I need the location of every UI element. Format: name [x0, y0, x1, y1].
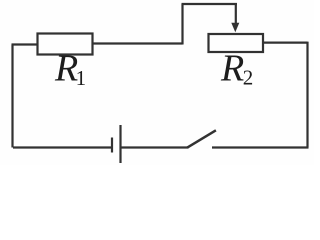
resistor R1 [38, 34, 93, 55]
svg-text:1: 1 [76, 66, 87, 90]
svg-text:2: 2 [243, 66, 254, 90]
wire top rail [182, 3, 237, 5]
switch S lever [187, 130, 216, 147]
battery negative plate [111, 138, 113, 153]
wire battery to switch [122, 146, 189, 148]
svg-text:R: R [54, 48, 78, 90]
wire top-left to R1 [12, 43, 38, 45]
wire bottom right [212, 146, 309, 148]
wire right vertical [306, 42, 308, 148]
wire left vertical [11, 45, 13, 148]
wire bottom left [13, 146, 111, 148]
wire wiper drop [235, 3, 237, 25]
wire riser up [181, 4, 183, 45]
rheostat R2 [209, 34, 264, 52]
svg-text:R: R [220, 48, 244, 90]
wire R1 to riser [93, 42, 183, 44]
wire R2 to right [263, 41, 308, 43]
wiper arrowhead [231, 23, 239, 33]
battery positive plate [119, 125, 121, 163]
